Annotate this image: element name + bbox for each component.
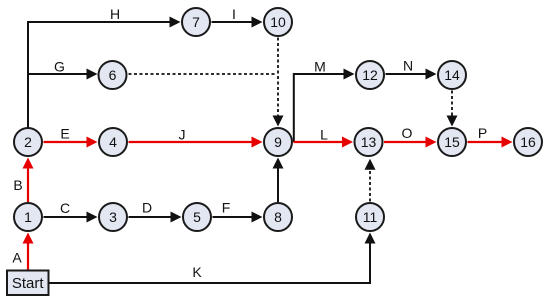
svg-text:B: B xyxy=(13,177,22,193)
svg-text:O: O xyxy=(402,125,413,141)
svg-text:I: I xyxy=(232,6,236,22)
svg-text:1: 1 xyxy=(24,209,32,225)
svg-text:4: 4 xyxy=(109,134,117,150)
svg-text:9: 9 xyxy=(274,134,282,150)
svg-text:D: D xyxy=(142,200,152,216)
svg-text:12: 12 xyxy=(362,67,378,83)
svg-text:5: 5 xyxy=(193,209,201,225)
svg-text:Start: Start xyxy=(12,275,45,292)
svg-text:K: K xyxy=(192,264,202,280)
svg-text:N: N xyxy=(403,58,413,74)
svg-text:14: 14 xyxy=(444,67,460,83)
svg-text:2: 2 xyxy=(24,134,32,150)
svg-text:8: 8 xyxy=(274,209,282,225)
svg-text:F: F xyxy=(222,200,231,216)
svg-text:6: 6 xyxy=(109,67,117,83)
svg-text:3: 3 xyxy=(109,209,117,225)
svg-text:M: M xyxy=(314,58,326,74)
svg-text:E: E xyxy=(60,126,69,142)
svg-text:C: C xyxy=(60,200,70,216)
svg-text:L: L xyxy=(320,127,328,143)
svg-text:P: P xyxy=(478,125,487,141)
svg-text:15: 15 xyxy=(444,134,460,150)
svg-text:16: 16 xyxy=(520,134,536,150)
svg-text:A: A xyxy=(12,250,22,266)
svg-text:7: 7 xyxy=(192,14,200,30)
svg-text:10: 10 xyxy=(270,14,286,30)
svg-text:G: G xyxy=(54,58,65,74)
svg-text:H: H xyxy=(110,6,120,22)
svg-text:11: 11 xyxy=(363,209,378,225)
svg-text:J: J xyxy=(179,127,186,143)
svg-text:13: 13 xyxy=(361,134,377,150)
